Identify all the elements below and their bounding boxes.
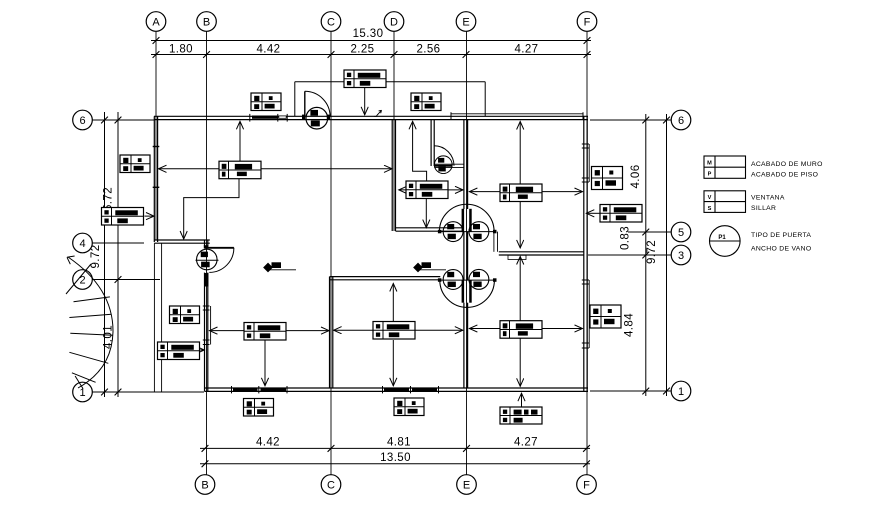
grid bubble A <box>146 12 166 32</box>
door D3 swing arc <box>209 248 234 273</box>
interior dim vertical room E-F lower <box>519 257 521 387</box>
niche sill in row3 wall <box>508 255 526 259</box>
leader tag T5 down-left <box>184 179 239 239</box>
leader tag T2 right <box>145 215 155 217</box>
wall interior E middle <box>464 232 468 281</box>
wall left exterior lower upper stub <box>205 240 208 247</box>
door D4 threshold crossline <box>440 231 496 233</box>
svg-text:F: F <box>584 17 591 29</box>
stair straight edge inner <box>161 243 163 391</box>
wall interior C lower <box>330 277 333 388</box>
door D2 swing arc <box>434 146 454 166</box>
window bottom wall right <box>383 386 439 393</box>
svg-text:1: 1 <box>678 386 684 398</box>
svg-text:P1: P1 <box>718 235 726 241</box>
grid bubble B bottom <box>195 475 215 495</box>
wall interior E upper <box>464 120 468 209</box>
door tag circle C4 <box>443 222 463 242</box>
dimension 4.06/0.83/4.84 right <box>620 114 650 396</box>
finish tag T2 room A-B long <box>102 208 144 226</box>
stair tread 1 steep <box>66 264 91 294</box>
grid row 1 line right <box>590 390 671 392</box>
wall interior D <box>392 120 395 231</box>
svg-text:4.42: 4.42 <box>256 436 280 448</box>
door D1 leaf <box>304 91 306 116</box>
grid row 6 line right <box>590 119 671 121</box>
wall top exterior <box>154 116 588 119</box>
finish tag T6 above top wall B-C <box>251 93 281 111</box>
svg-text:B: B <box>203 17 210 29</box>
dimension 4.42/4.81/4.27 bottom <box>200 436 590 451</box>
door D3 tag crossline <box>196 259 219 261</box>
svg-text:1.80: 1.80 <box>169 44 193 56</box>
wall right exterior <box>584 116 587 391</box>
wall interior row3 right <box>499 252 584 255</box>
tiny north mark near entry <box>374 110 381 116</box>
svg-text:E: E <box>462 17 469 29</box>
wall interior bath stub <box>431 120 434 166</box>
leader tag T9 down <box>425 199 427 228</box>
grid bubble C top <box>321 12 341 32</box>
svg-text:V: V <box>708 195 712 201</box>
svg-text:1: 1 <box>79 387 85 399</box>
svg-text:4.81: 4.81 <box>387 436 411 448</box>
finish tag T4 left lower long <box>158 342 200 360</box>
wall bath threshold <box>434 164 464 167</box>
finish tag T10 room E-F upper <box>500 184 542 202</box>
svg-text:2.56: 2.56 <box>417 44 441 56</box>
svg-text:VENTANA: VENTANA <box>751 195 785 202</box>
door D4 leaf bars <box>462 209 472 232</box>
finish tag T11 room B-C lower <box>244 323 286 341</box>
finish tag T12 room C-E lower <box>373 322 415 340</box>
stair tread 5 <box>69 352 108 363</box>
door D5 leaf bars <box>462 280 472 303</box>
svg-text:0.83: 0.83 <box>620 226 632 250</box>
grid bubble 4 left <box>73 233 93 253</box>
stair direction arrowhead <box>67 256 75 264</box>
grid bubble D <box>384 12 404 32</box>
wall left exterior upper <box>154 116 157 242</box>
door tag circle C6 <box>443 270 463 290</box>
pocket duct line inner <box>493 232 495 252</box>
grid line F vertical <box>586 31 588 474</box>
grid bubble 1 left <box>73 382 93 402</box>
legend P1 door type circle <box>710 226 741 257</box>
stair tread 4 <box>70 333 113 335</box>
finish tag T8 canopy 2x2 <box>411 93 441 111</box>
svg-text:6: 6 <box>79 115 85 127</box>
finish tag T17 right outside upper <box>592 167 623 190</box>
grid line B vertical <box>206 31 208 474</box>
svg-text:E: E <box>463 480 470 492</box>
grid bubble 1 right <box>671 381 691 401</box>
finish tag T18 right outside long <box>600 205 642 223</box>
grid bubble 6 right <box>671 110 691 130</box>
grid bubble 3 right <box>671 245 691 265</box>
window top wall E-F sill <box>451 112 583 120</box>
grid line A vertical <box>155 31 157 240</box>
wall interior E lower <box>464 303 468 388</box>
svg-text:6: 6 <box>678 115 684 127</box>
door D1 swing arc <box>305 91 330 116</box>
stair straight edge outer <box>153 243 155 391</box>
svg-text:P: P <box>708 172 712 178</box>
stair outer arc <box>68 257 113 388</box>
leader tag T12 up <box>392 284 394 322</box>
svg-text:ACABADO DE PISO: ACABADO DE PISO <box>751 171 818 178</box>
svg-text:B: B <box>201 480 208 492</box>
stair tread 6 <box>72 373 96 383</box>
door D3 leaf <box>205 247 234 249</box>
svg-text:TIPO DE PUERTA: TIPO DE PUERTA <box>751 232 811 239</box>
svg-text:A: A <box>152 17 160 29</box>
interior dim vertical room E-F upper <box>519 122 521 248</box>
grid bubble C bottom <box>321 475 341 495</box>
finish tag T1 room A-B <box>120 155 150 173</box>
svg-text:9.72: 9.72 <box>90 245 102 269</box>
svg-text:ACABADO DE MURO: ACABADO DE MURO <box>751 161 823 168</box>
window bottom wall left <box>232 386 288 393</box>
svg-text:4.84: 4.84 <box>624 313 636 337</box>
dimension 5.72/4.01 left <box>103 112 122 397</box>
svg-text:F: F <box>583 480 590 492</box>
interior dim arrow room D-E <box>399 189 463 191</box>
window left wall B lower <box>203 306 211 345</box>
svg-text:5: 5 <box>678 227 684 239</box>
leader tag T16 up <box>521 393 523 407</box>
grid bubble E bottom <box>457 475 477 495</box>
leader tag T7 down <box>364 87 366 114</box>
canopy outline <box>295 82 485 117</box>
interior dim arrow room B-C lower <box>210 330 330 332</box>
svg-text:C: C <box>327 480 335 492</box>
door tag circle C1 <box>306 107 328 129</box>
svg-text:ANCHO DE VANO: ANCHO DE VANO <box>751 246 811 253</box>
grid bubble 2 left <box>73 270 93 290</box>
legend M/P box <box>704 156 746 178</box>
stair tread 3 <box>69 314 111 317</box>
door D5 jamb dots <box>438 278 497 282</box>
door D1 jambs top wall <box>302 115 330 120</box>
grid row 3 line right <box>588 254 671 256</box>
finish tag T5 big room <box>219 161 261 179</box>
door tag circle C3 <box>197 249 218 270</box>
interior dim arrow big room y168 <box>159 168 393 170</box>
window right wall lower <box>582 280 589 348</box>
svg-text:C: C <box>327 17 335 29</box>
grid row 2 line left <box>92 279 160 281</box>
stair tread 2 <box>74 297 110 302</box>
svg-text:4.06: 4.06 <box>630 165 642 189</box>
leader tag T18 left <box>586 212 600 214</box>
leader tag T11 down <box>264 340 266 386</box>
window right wall upper <box>582 144 589 182</box>
interior dim arrow room E-F upper <box>469 191 582 193</box>
grid row 6 line left <box>92 119 154 121</box>
wall interior D-E horizontal <box>396 228 464 231</box>
grid row 4 line left <box>92 242 144 244</box>
grid bubble 6 left <box>73 110 93 130</box>
finish tag T16 below bottom wall right <box>500 407 542 424</box>
door tag circle C5 <box>469 222 489 242</box>
grid bubble F top <box>577 12 597 32</box>
leader tag T12 down <box>392 340 394 386</box>
leader tag T4 right <box>199 349 204 351</box>
svg-text:D: D <box>390 17 398 29</box>
svg-text:9.72: 9.72 <box>646 240 658 264</box>
finish tag T9 room D-E <box>406 181 448 199</box>
finish tag T7 canopy <box>344 70 386 88</box>
svg-text:4: 4 <box>79 238 85 250</box>
door D3 jamb marks <box>204 245 209 286</box>
door D4 swing dome <box>439 204 494 231</box>
wall interior C-E horizontal <box>330 277 441 280</box>
svg-text:M: M <box>707 160 712 166</box>
svg-text:13.50: 13.50 <box>380 452 411 464</box>
legend V/S box <box>704 191 746 213</box>
dimension 9.72 left <box>90 112 108 397</box>
grid bubble F bottom <box>577 475 597 495</box>
dimension row 1.80/4.42/2.25/2.56/4.27 top <box>151 44 591 58</box>
finish tag T15 below bottom wall middle <box>394 398 424 416</box>
door tag circle C2 <box>434 156 452 174</box>
finish tag T13 room E-F lower <box>500 321 542 339</box>
grid bubble 5 right <box>671 222 691 242</box>
symbol S1 outlet left <box>264 262 296 272</box>
symbol S2 outlet right <box>414 262 446 272</box>
grid bubble E top <box>456 12 476 32</box>
svg-text:SILLAR: SILLAR <box>751 205 776 212</box>
dimension 13.50 bottom <box>200 452 590 467</box>
grid line D vertical <box>393 31 395 231</box>
interior dim arrow room E-F lower <box>469 328 582 330</box>
svg-text:S: S <box>708 206 712 212</box>
grid line E vertical <box>466 31 468 474</box>
svg-text:2.25: 2.25 <box>351 44 375 56</box>
wall left exterior lower <box>205 273 208 392</box>
stair tread 7 <box>75 376 83 389</box>
svg-text:4.27: 4.27 <box>514 436 538 448</box>
window left wall A <box>153 147 160 188</box>
grid row 5 line right <box>628 231 671 233</box>
grid row 1 line left <box>92 391 204 393</box>
svg-text:3: 3 <box>678 250 684 262</box>
svg-text:4.42: 4.42 <box>257 44 281 56</box>
pocket duct line outer <box>497 232 499 252</box>
door D2 leaf <box>434 165 453 167</box>
finish tag T3 left lower <box>170 306 200 324</box>
finish tag T14 below bottom wall left <box>244 399 274 417</box>
window top wall B-C <box>250 114 287 122</box>
finish tag T19 right outside lower <box>590 305 621 328</box>
leader tag T9 up <box>413 121 427 181</box>
interior dim arrow room C-E lower <box>334 329 463 331</box>
wall jog row4 left <box>154 240 210 243</box>
door tag circle C7 <box>469 269 489 289</box>
dimension 15.30 top <box>151 28 591 44</box>
door D5 swing dome <box>440 280 495 307</box>
svg-text:15.30: 15.30 <box>353 28 384 40</box>
grid bubble B top <box>197 12 217 32</box>
door D4 jamb dots <box>438 230 497 234</box>
grid line C vertical <box>330 31 332 474</box>
dimension 9.72 right <box>646 114 670 396</box>
wall bottom exterior <box>205 388 589 391</box>
leader tag T5 up <box>239 121 241 161</box>
door D5 threshold crossline <box>440 279 496 281</box>
svg-text:4.27: 4.27 <box>515 44 539 56</box>
